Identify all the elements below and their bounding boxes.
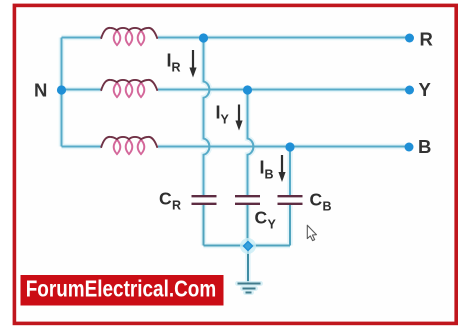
value label CB [310,190,332,214]
wire: drop from Y line to capacitor CY (with hop) [248,90,254,195]
wire: CR bottom to bus [203,205,205,246]
current label IR [167,51,181,75]
wire: CB bottom to bus [289,205,291,246]
capacitor CR [192,196,217,204]
svg-text:B: B [418,136,431,157]
svg-text:C: C [159,189,172,209]
svg-text:Y: Y [419,79,432,100]
wire: Y phase line to terminal [158,89,406,91]
wire: bottom bus [204,245,291,247]
wire: R phase line to terminal [158,37,406,39]
ground [238,284,261,293]
terminal dot R [405,34,414,43]
value label CR [159,189,181,213]
inductor (Y phase) [101,80,158,97]
junction diamond at bus [240,238,256,254]
junction dot on R line [199,33,208,42]
current arrow IY [235,105,242,131]
current label IB [260,158,274,182]
svg-text:B: B [265,168,274,182]
wire: stem to ground [247,246,249,283]
wire: drop from R line to capacitor CR (with hops) [204,38,210,195]
watermark logo box [21,275,224,306]
wire: CY bottom to bus [247,205,249,246]
wire: drop from B line to capacitor CB [289,147,291,195]
mouse cursor [307,225,316,240]
svg-text:R: R [172,199,181,213]
terminal dot B [405,143,414,152]
node N junction dot [57,85,66,94]
current label IY [216,103,230,127]
junction dot on B line [285,142,294,151]
svg-text:C: C [310,190,323,210]
junction dot on Y line [243,85,252,94]
terminal dot Y [405,86,414,95]
svg-text:N: N [34,80,47,101]
wire: stub N to inductor B [62,146,102,148]
wire: stub N to inductor Y [62,89,102,91]
svg-text:ForumElectrical.Com: ForumElectrical.Com [26,276,217,302]
capacitor CY [235,196,260,204]
current arrow IB [278,155,285,182]
capacitor CB [278,196,303,204]
svg-text:C: C [255,208,268,228]
wire: B phase line to terminal [158,146,406,148]
current arrow IR [189,50,196,78]
inductor (B phase) [101,137,158,154]
value label CY [255,208,277,232]
wire: stub N to inductor R [62,37,102,39]
svg-text:Y: Y [268,218,277,232]
svg-text:B: B [323,200,332,214]
svg-text:R: R [420,29,433,50]
inductor (R phase) [101,28,158,45]
svg-text:Y: Y [221,113,230,127]
svg-text:R: R [172,61,181,75]
wire: left neutral rail [61,38,63,147]
